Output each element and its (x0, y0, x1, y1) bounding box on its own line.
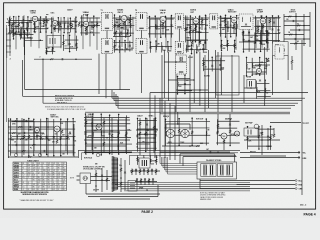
wire net112 (69, 18, 71, 32)
wire vertical net (149, 19, 151, 48)
junction (145, 117, 147, 119)
wire tie (167, 142, 210, 144)
junction (96, 21, 98, 23)
wire (84, 151, 132, 153)
capacitor C21 (294, 38, 297, 40)
resistor R62 (273, 134, 275, 137)
junction (225, 36, 227, 38)
wire (117, 120, 119, 150)
wire (139, 118, 141, 155)
wire (176, 89, 208, 91)
junction (260, 51, 262, 53)
wire net147 (119, 41, 121, 53)
resistor R70 (131, 170, 133, 173)
wire vertical net (255, 18, 257, 48)
wire tie (217, 127, 237, 129)
junction (100, 113, 102, 115)
junction (59, 22, 61, 24)
wire (65, 121, 67, 151)
capacitor C123 (160, 25, 162, 26)
wire drop x190 (189, 55, 191, 112)
wire net107 (40, 17, 42, 32)
wire net204 (155, 155, 157, 165)
wire drop x205 (204, 55, 206, 112)
capacitor C155 (190, 49, 192, 50)
junction (220, 15, 222, 17)
junction (33, 132, 35, 134)
wire tie (243, 48, 270, 50)
capacitor C106 (33, 24, 35, 25)
wire vertical net (198, 17, 200, 47)
resistor R101 (9, 23, 11, 26)
wire tie (202, 60, 225, 62)
wire bus line 6 (118, 107, 291, 109)
wire drop x208 (207, 50, 209, 108)
wire net197 (229, 119, 231, 145)
capacitor C109 (50, 25, 52, 26)
wire net205 (46, 48, 48, 53)
capacitor C6 (67, 26, 69, 27)
ion trap box (244, 128, 258, 136)
wire drop x215 (215, 50, 217, 98)
resistor R64 (106, 178, 108, 181)
wire vertical net (60, 17, 62, 48)
wire bus line 3 (114, 100, 302, 102)
wire tie (216, 142, 240, 144)
wire tie (84, 151, 131, 153)
wire T2 link (141, 30, 143, 38)
junction (221, 40, 223, 42)
wire drop into transformer (234, 154, 236, 162)
junction (67, 22, 69, 24)
junction (46, 48, 48, 50)
wire antenna lead right (9, 30, 11, 56)
capacitor C7 (91, 26, 93, 27)
capacitor C142 (26, 34, 28, 35)
resistor R36 (291, 60, 293, 63)
wire (287, 56, 289, 81)
wire (224, 18, 226, 26)
wire tie (80, 32, 100, 34)
junction (261, 139, 263, 141)
capacitor C42 (229, 124, 231, 125)
resistor R164 (260, 40, 262, 43)
junction (258, 148, 260, 150)
wire (135, 169, 137, 176)
resistor R54 (103, 142, 105, 145)
junction (148, 181, 150, 183)
wire net152 (161, 42, 163, 53)
wire net198 (247, 127, 249, 150)
wire net121 (149, 16, 151, 37)
wire (8, 144, 62, 146)
resistor R103 (18, 23, 20, 26)
wire (273, 128, 275, 134)
junction (69, 51, 71, 53)
wire vertical net (267, 17, 269, 48)
tube V7 12AV6 audio (260, 18, 266, 24)
wire net206 (52, 48, 54, 55)
wire (33, 121, 35, 151)
junction (175, 61, 177, 63)
resistor R110 (57, 22, 59, 25)
junction (229, 145, 231, 147)
junction (206, 118, 208, 120)
resistor R55 (139, 122, 141, 125)
wire (84, 119, 130, 121)
resistor R11 (96, 23, 98, 26)
junction (13, 16, 15, 18)
wire grid input (6, 22, 32, 24)
junction (21, 126, 23, 128)
resistor R9 (85, 28, 87, 31)
junction (155, 40, 157, 42)
audio section enclosure (216, 56, 239, 95)
resistor R115 (86, 25, 88, 28)
resistor R128 (195, 27, 197, 30)
capacitor C15 (227, 27, 229, 28)
junction (63, 32, 65, 34)
wire net200 (270, 126, 272, 149)
capacitor C210 (211, 65, 213, 66)
note text block (55, 95, 75, 105)
wire net189 (137, 118, 139, 151)
wire tie (114, 49, 133, 51)
capacitor C38 (117, 136, 119, 137)
resistor R8 (71, 25, 73, 28)
wire (138, 137, 156, 139)
capacitor C138 (271, 29, 273, 30)
wire (291, 64, 293, 71)
wire (187, 40, 189, 52)
junction (100, 154, 102, 156)
junction (191, 53, 193, 55)
junction (101, 179, 103, 181)
capacitor C22 (61, 58, 64, 60)
junction (47, 126, 49, 128)
capacitor C14 (245, 24, 247, 25)
wire net131 (220, 16, 222, 36)
junction (119, 40, 121, 42)
wire net164 (260, 32, 262, 51)
wire net208 (184, 75, 186, 93)
resistor R56 (153, 126, 155, 129)
resistor R45 (32, 144, 35, 146)
wire net162 (248, 32, 250, 52)
wire (182, 157, 184, 166)
resistor R59 (223, 140, 225, 143)
wire tie (113, 42, 133, 44)
wire (106, 170, 108, 190)
junction (46, 118, 48, 120)
resistor R158 (221, 44, 223, 47)
capacitor C41 (146, 134, 148, 135)
wire (129, 18, 131, 28)
junction (177, 76, 179, 78)
coil L173 (16, 135, 19, 140)
junction (28, 118, 30, 120)
resistor R17 (195, 25, 197, 28)
junction (46, 154, 48, 156)
wire net181 (67, 119, 69, 155)
wire bus line 1 (150, 92, 308, 94)
junction (86, 14, 88, 16)
wire net109 (51, 17, 53, 33)
junction (278, 15, 280, 17)
capacitor C30 (25, 120, 28, 122)
ground (162, 33, 164, 34)
junction (23, 119, 25, 121)
resistor R72 (139, 170, 141, 173)
junction (230, 15, 232, 17)
transformer sub-box B (218, 164, 233, 177)
wire (157, 185, 159, 197)
junction (10, 118, 12, 120)
wire (8, 132, 44, 134)
wire (248, 30, 250, 37)
wire (144, 178, 146, 185)
wire drop x218 (217, 52, 219, 112)
junction (189, 145, 191, 147)
resistor R83 (148, 179, 150, 182)
resistor R174 (23, 135, 25, 138)
wire (21, 37, 33, 39)
wire vertical net (170, 16, 172, 49)
wire vertical net (275, 17, 277, 50)
tube chart row labels (14, 163, 19, 191)
wire drop (164, 101, 166, 158)
wire net114 (81, 15, 83, 35)
wire (59, 23, 61, 24)
wire lead RED (237, 184, 296, 186)
resistor R200 (270, 136, 272, 139)
wire tie (187, 39, 206, 41)
junction (177, 123, 179, 125)
junction (137, 118, 139, 120)
wire net182 (72, 119, 74, 156)
junction (260, 15, 262, 17)
wire net102 (13, 17, 15, 33)
wire tie (114, 24, 134, 26)
wire plate V2 (89, 21, 101, 23)
wire (183, 17, 193, 19)
junction (91, 21, 93, 23)
wire (91, 22, 93, 30)
junction (150, 41, 152, 43)
capacitor C50 (101, 175, 103, 176)
resistor R127 (190, 26, 192, 29)
capacitor C121 (148, 27, 150, 28)
wire vertical net (15, 16, 17, 49)
coil L195 (205, 131, 208, 136)
resistor R76 (155, 170, 157, 173)
wire T3 link (178, 29, 180, 41)
tube V1B oscillator (52, 20, 57, 25)
junction (184, 93, 186, 95)
wire bus line A (25, 89, 130, 91)
wire (303, 14, 305, 46)
wire tie (257, 96, 271, 98)
capacitor C43 (209, 151, 212, 153)
junction (109, 114, 111, 116)
wire vertical net (96, 17, 98, 50)
wire tube V1 cathode (34, 22, 36, 27)
tube V9 rectifier 35W4 (256, 68, 261, 73)
oscillator coil box (47, 36, 61, 48)
capacitor C124 (164, 27, 166, 28)
junction (18, 16, 20, 18)
wire bottom bus (118, 186, 250, 188)
capacitor C136 (260, 31, 262, 32)
wire (67, 23, 69, 30)
wire (58, 22, 64, 24)
resistor R31 (289, 34, 292, 36)
wire bend (113, 92, 115, 101)
wire (201, 18, 203, 30)
junction (259, 57, 261, 59)
resistor R143 (63, 41, 65, 44)
wire (229, 114, 231, 131)
capacitor C113 (75, 25, 77, 26)
wire (162, 145, 200, 147)
resistor R199 (258, 135, 260, 138)
capacitor C16 (248, 32, 250, 33)
wire (266, 17, 280, 19)
nested connection wires (160, 157, 197, 174)
junction (203, 44, 205, 46)
wire (227, 21, 229, 32)
resistor R204 (155, 159, 157, 162)
wire (103, 118, 105, 152)
junction (30, 37, 32, 39)
wire tie (148, 33, 173, 35)
wire drop x162 (161, 55, 163, 112)
wire tie (203, 68, 224, 70)
wire vertical net (45, 17, 47, 49)
capacitor C5 (64, 22, 67, 24)
wire net115 (86, 15, 88, 35)
capacitor C107 (39, 23, 41, 24)
wire (261, 125, 263, 155)
interlock plug box (80, 173, 91, 184)
wire net117 (114, 15, 116, 36)
wire vertical net (226, 18, 228, 46)
wire net106 (33, 17, 35, 31)
coil L135 (255, 28, 258, 33)
wire tie (186, 48, 207, 50)
wire (166, 17, 175, 19)
capacitor C34 (43, 150, 46, 152)
wire net201 (137, 156, 139, 165)
tone box marks (130, 183, 135, 188)
junction (178, 118, 180, 120)
junction (63, 17, 65, 19)
resistor R16 (162, 23, 164, 26)
junction (140, 181, 142, 183)
junction (95, 185, 97, 187)
wire drop x221 (220, 52, 222, 95)
coil L166 (246, 64, 249, 69)
capacitor C73 (143, 170, 145, 171)
wire long right drop (301, 40, 303, 195)
capacitor C37 (91, 123, 93, 124)
capacitor C2 (26, 28, 28, 29)
wire (136, 143, 150, 145)
junction (33, 154, 35, 156)
resistor R161 (243, 39, 245, 42)
wire yoke lead 1 (240, 151, 300, 153)
resistor R43 (20, 138, 23, 140)
wire drop x106 (105, 54, 107, 99)
wire (131, 169, 133, 176)
resistor R193 (178, 129, 180, 132)
wire (177, 112, 179, 124)
coil L148 (124, 44, 127, 49)
wire (91, 180, 111, 182)
junction (119, 35, 121, 37)
choke core bars (249, 81, 251, 87)
coil L151 (155, 45, 158, 50)
ion trap bars (247, 130, 249, 135)
junction (265, 58, 267, 60)
wire net128 (194, 16, 196, 42)
resistor R117 (114, 24, 116, 27)
tube V6 12AL5 (231, 17, 237, 23)
wire tie (138, 120, 157, 122)
resistor R189 (137, 134, 139, 137)
wire lead BLU (200, 180, 295, 182)
junction (227, 40, 229, 42)
junction (250, 87, 252, 89)
capacitor C169 (265, 65, 267, 66)
wire (252, 73, 265, 75)
resistor R6 (54, 27, 56, 30)
wire (79, 21, 83, 23)
wire AGC bus (113, 36, 130, 38)
wire (30, 38, 32, 41)
wire tie (137, 128, 158, 130)
wire (242, 30, 244, 41)
wire net120 (129, 15, 131, 35)
resistor R19 (201, 20, 203, 23)
wire drop x232 (231, 55, 233, 112)
wire bus line 5 (116, 105, 295, 107)
wire (101, 168, 103, 192)
junction (46, 53, 48, 55)
wire main B+ line (85, 111, 290, 113)
wire net145 (75, 36, 77, 51)
capacitor C40 (146, 124, 148, 125)
resistor R10 (78, 23, 80, 26)
capacitor C154 (185, 49, 187, 50)
transformer T6 core bars (275, 44, 277, 54)
wire net158 (221, 41, 223, 51)
wire tie (186, 31, 209, 33)
capacitor C102 (13, 23, 15, 24)
resistor R2 (11, 24, 13, 27)
coil T5 secondary (249, 17, 252, 22)
yoke coil A (166, 129, 174, 137)
wire net123 (160, 16, 162, 37)
junction (146, 129, 148, 131)
wire net184 (92, 114, 94, 154)
wire (117, 20, 119, 30)
junction (191, 117, 193, 119)
wire net110 (57, 18, 59, 33)
wire tie (223, 45, 236, 47)
terminal (295, 184, 297, 186)
resistor R206 (52, 48, 54, 51)
